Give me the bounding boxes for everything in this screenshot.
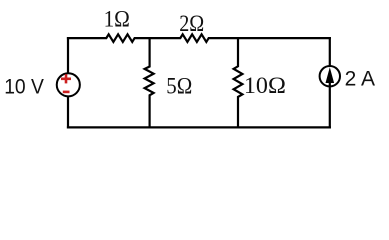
svg-text:10Ω: 10Ω [244, 73, 286, 98]
svg-text:10 V: 10 V [4, 76, 44, 99]
svg-text:1Ω: 1Ω [104, 7, 130, 32]
svg-text:5Ω: 5Ω [166, 74, 192, 99]
svg-text:2 A: 2 A [345, 67, 375, 90]
svg-text:2Ω: 2Ω [179, 11, 204, 36]
